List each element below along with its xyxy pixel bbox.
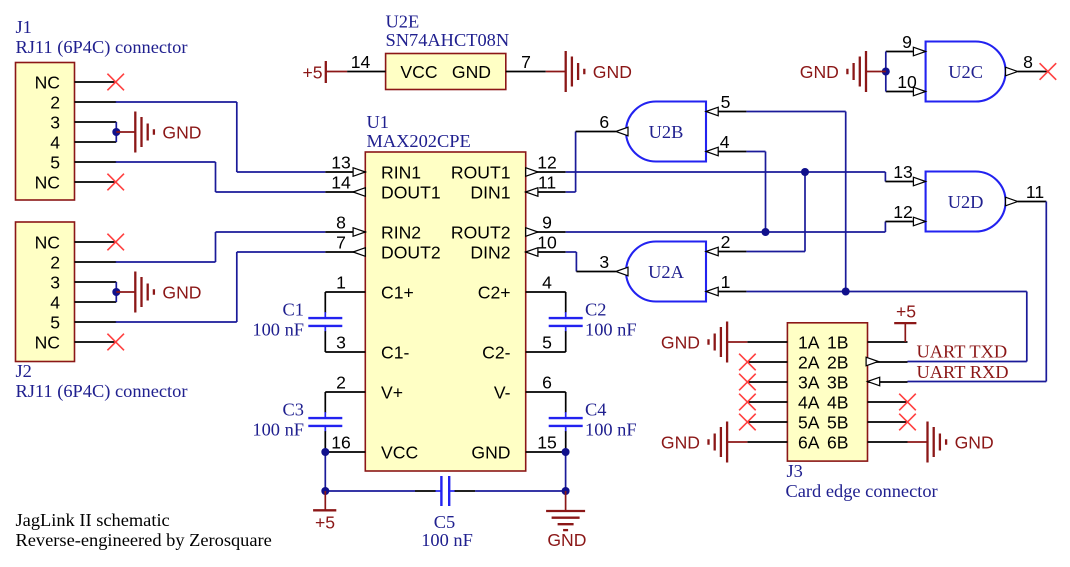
svg-text:6B: 6B bbox=[827, 432, 849, 452]
svg-text:U1: U1 bbox=[367, 112, 389, 132]
svg-text:4B: 4B bbox=[827, 392, 849, 412]
svg-text:Reverse-engineered by Zerosqua: Reverse-engineered by Zerosquare bbox=[16, 530, 272, 550]
svg-text:C3: C3 bbox=[283, 400, 304, 420]
svg-text:GND: GND bbox=[162, 282, 201, 302]
svg-text:C5: C5 bbox=[434, 512, 455, 532]
svg-text:7: 7 bbox=[336, 233, 346, 253]
svg-text:U2B: U2B bbox=[649, 122, 684, 142]
svg-text:11: 11 bbox=[1026, 182, 1044, 202]
svg-text:SN74AHCT08N: SN74AHCT08N bbox=[386, 30, 510, 50]
svg-text:GND: GND bbox=[471, 442, 510, 462]
svg-text:8: 8 bbox=[1023, 52, 1033, 72]
svg-text:DOUT1: DOUT1 bbox=[381, 182, 441, 202]
svg-text:C2+: C2+ bbox=[478, 282, 511, 302]
svg-text:GND: GND bbox=[955, 432, 994, 452]
svg-text:100 nF: 100 nF bbox=[585, 320, 637, 340]
svg-text:U2A: U2A bbox=[648, 262, 684, 282]
svg-text:4: 4 bbox=[720, 132, 730, 152]
svg-text:C1+: C1+ bbox=[381, 282, 414, 302]
svg-text:6A: 6A bbox=[798, 432, 820, 452]
svg-text:ROUT1: ROUT1 bbox=[451, 162, 511, 182]
svg-text:100 nF: 100 nF bbox=[585, 420, 637, 440]
svg-text:DOUT2: DOUT2 bbox=[381, 242, 441, 262]
svg-text:C1: C1 bbox=[283, 300, 304, 320]
svg-text:3: 3 bbox=[50, 112, 60, 132]
svg-text:1A: 1A bbox=[798, 332, 820, 352]
svg-text:GND: GND bbox=[593, 62, 632, 82]
svg-text:VCC: VCC bbox=[381, 442, 418, 462]
svg-text:3A: 3A bbox=[798, 372, 820, 392]
svg-text:3: 3 bbox=[50, 272, 60, 292]
svg-text:U2E: U2E bbox=[386, 12, 420, 32]
svg-text:5: 5 bbox=[50, 312, 60, 332]
svg-text:2: 2 bbox=[721, 232, 731, 252]
svg-text:13: 13 bbox=[893, 162, 913, 182]
svg-text:100 nF: 100 nF bbox=[252, 420, 304, 440]
svg-text:NC: NC bbox=[35, 232, 61, 252]
svg-text:2: 2 bbox=[50, 92, 60, 112]
svg-text:V+: V+ bbox=[381, 382, 403, 402]
svg-text:4: 4 bbox=[50, 132, 60, 152]
svg-text:5: 5 bbox=[542, 333, 552, 353]
svg-text:NC: NC bbox=[35, 172, 61, 192]
svg-text:3B: 3B bbox=[827, 372, 849, 392]
svg-text:4: 4 bbox=[542, 273, 552, 293]
svg-text:8: 8 bbox=[336, 213, 346, 233]
svg-text:DIN1: DIN1 bbox=[470, 182, 510, 202]
svg-text:J1: J1 bbox=[16, 17, 32, 37]
svg-text:ROUT2: ROUT2 bbox=[451, 222, 511, 242]
svg-text:12: 12 bbox=[537, 153, 557, 173]
svg-text:15: 15 bbox=[537, 433, 557, 453]
svg-text:10: 10 bbox=[537, 233, 557, 253]
svg-text:3: 3 bbox=[599, 252, 609, 272]
svg-text:3: 3 bbox=[336, 333, 346, 353]
svg-text:1: 1 bbox=[336, 273, 346, 293]
svg-text:RIN1: RIN1 bbox=[381, 162, 421, 182]
svg-text:14: 14 bbox=[331, 173, 351, 193]
svg-text:10: 10 bbox=[897, 72, 917, 92]
svg-text:C1-: C1- bbox=[381, 342, 409, 362]
svg-text:MAX202CPE: MAX202CPE bbox=[367, 131, 471, 151]
svg-text:RJ11 (6P4C) connector: RJ11 (6P4C) connector bbox=[16, 381, 188, 402]
svg-text:2A: 2A bbox=[798, 352, 820, 372]
svg-text:V-: V- bbox=[494, 382, 511, 402]
svg-text:14: 14 bbox=[351, 52, 371, 72]
svg-text:4: 4 bbox=[50, 292, 60, 312]
svg-text:UART TXD: UART TXD bbox=[917, 342, 1008, 362]
svg-text:+5: +5 bbox=[302, 62, 322, 82]
svg-text:7: 7 bbox=[521, 52, 531, 72]
svg-text:11: 11 bbox=[538, 173, 556, 193]
svg-text:GND: GND bbox=[800, 62, 839, 82]
svg-text:JagLink II schematic: JagLink II schematic bbox=[16, 510, 170, 530]
svg-text:100 nF: 100 nF bbox=[252, 320, 304, 340]
svg-text:12: 12 bbox=[893, 202, 913, 222]
svg-text:2: 2 bbox=[336, 373, 346, 393]
svg-text:1: 1 bbox=[721, 272, 731, 292]
svg-text:+5: +5 bbox=[896, 302, 916, 322]
svg-text:9: 9 bbox=[902, 32, 912, 52]
svg-text:5B: 5B bbox=[827, 412, 849, 432]
svg-text:2: 2 bbox=[50, 252, 60, 272]
svg-text:16: 16 bbox=[331, 433, 351, 453]
svg-text:C2-: C2- bbox=[482, 342, 510, 362]
svg-text:J3: J3 bbox=[787, 461, 803, 481]
svg-text:U2C: U2C bbox=[948, 62, 983, 82]
svg-text:GND: GND bbox=[547, 530, 586, 550]
svg-text:5: 5 bbox=[721, 92, 731, 112]
svg-text:5: 5 bbox=[50, 152, 60, 172]
svg-text:13: 13 bbox=[331, 153, 351, 173]
svg-text:DIN2: DIN2 bbox=[470, 242, 510, 262]
svg-text:U2D: U2D bbox=[948, 192, 984, 212]
svg-text:6: 6 bbox=[599, 112, 609, 132]
svg-text:RIN2: RIN2 bbox=[381, 222, 421, 242]
svg-text:C4: C4 bbox=[585, 400, 606, 420]
svg-text:VCC: VCC bbox=[400, 62, 437, 82]
svg-text:UART RXD: UART RXD bbox=[917, 362, 1009, 382]
svg-text:100 nF: 100 nF bbox=[421, 530, 473, 550]
svg-text:4A: 4A bbox=[798, 392, 820, 412]
svg-text:NC: NC bbox=[35, 72, 61, 92]
svg-text:RJ11 (6P4C) connector: RJ11 (6P4C) connector bbox=[16, 37, 188, 58]
svg-text:GND: GND bbox=[661, 432, 700, 452]
svg-text:1B: 1B bbox=[827, 332, 849, 352]
svg-text:GND: GND bbox=[162, 122, 201, 142]
svg-text:5A: 5A bbox=[798, 412, 820, 432]
svg-text:9: 9 bbox=[542, 213, 552, 233]
svg-text:NC: NC bbox=[35, 332, 61, 352]
svg-text:GND: GND bbox=[661, 332, 700, 352]
svg-text:2B: 2B bbox=[827, 352, 849, 372]
svg-text:J2: J2 bbox=[16, 361, 32, 381]
svg-text:6: 6 bbox=[542, 373, 552, 393]
svg-text:+5: +5 bbox=[315, 513, 335, 533]
svg-text:C2: C2 bbox=[585, 300, 606, 320]
svg-text:GND: GND bbox=[452, 62, 491, 82]
svg-text:Card edge connector: Card edge connector bbox=[786, 481, 938, 501]
